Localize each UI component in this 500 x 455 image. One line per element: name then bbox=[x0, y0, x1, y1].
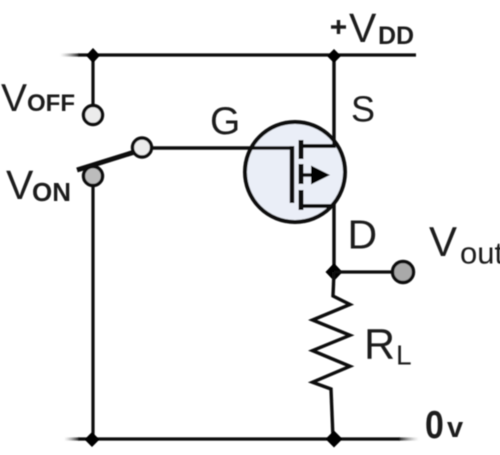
svg-text:L: L bbox=[396, 340, 412, 371]
svg-text:V: V bbox=[429, 218, 457, 265]
svg-text:R: R bbox=[364, 321, 395, 369]
svg-text:D: D bbox=[348, 212, 378, 258]
svg-text:V: V bbox=[1, 77, 27, 120]
svg-text:ON: ON bbox=[32, 177, 71, 207]
svg-text:0: 0 bbox=[425, 403, 444, 447]
svg-text:v: v bbox=[447, 412, 463, 444]
svg-text:V: V bbox=[349, 5, 377, 51]
svg-text:out: out bbox=[460, 236, 500, 271]
svg-text:DD: DD bbox=[378, 22, 414, 50]
svg-text:S: S bbox=[351, 89, 375, 130]
svg-text:G: G bbox=[210, 100, 240, 143]
svg-text:V: V bbox=[6, 162, 34, 208]
svg-text:OFF: OFF bbox=[27, 90, 75, 117]
